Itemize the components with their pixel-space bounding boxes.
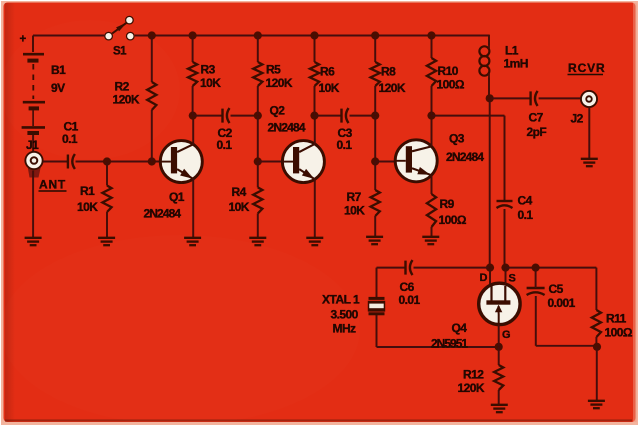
svg-text:2N2484: 2N2484 [144, 207, 182, 221]
svg-text:R8: R8 [381, 65, 396, 79]
wire to Q3 base [375, 161, 395, 163]
wire rail corner to L1 [488, 35, 490, 46]
svg-text:2pF: 2pF [527, 125, 547, 139]
node R2 junction [148, 157, 156, 165]
wire drain column [489, 98, 491, 267]
svg-text:10K: 10K [77, 200, 98, 214]
svg-text:D: D [480, 272, 488, 284]
svg-text:MHz: MHz [333, 322, 357, 336]
svg-text:S: S [509, 273, 516, 285]
svg-text:Q4: Q4 [452, 321, 468, 335]
wire gate to node [498, 324, 500, 346]
svg-text:Q3: Q3 [449, 132, 465, 146]
svg-text:R7: R7 [347, 190, 362, 204]
resistor R2 [113, 36, 157, 162]
svg-text:B1: B1 [51, 63, 66, 77]
capacitor C2 [217, 108, 233, 152]
node Q1 collector [189, 112, 197, 120]
wire J1 to C1 [43, 161, 68, 163]
resistor R6 [310, 36, 340, 116]
wire L1 node to C7 [490, 97, 531, 99]
svg-text:100Ω: 100Ω [605, 326, 633, 340]
wire V+ rail right segment [135, 35, 489, 37]
node R1 junction [103, 157, 111, 165]
node C5 junction [532, 264, 540, 272]
resistor R1 [77, 162, 112, 238]
wire battery to J1 [32, 135, 34, 152]
svg-text:S1: S1 [113, 46, 127, 58]
svg-text:Q1: Q1 [169, 190, 185, 204]
svg-text:ANT: ANT [39, 178, 66, 192]
capacitor C3 [337, 108, 353, 152]
wire to Q2 base [258, 161, 283, 163]
wire C1 to Q1 base [76, 161, 161, 163]
svg-text:0.1: 0.1 [518, 208, 534, 222]
svg-text:0.1: 0.1 [62, 132, 78, 146]
node rail-R3 [189, 31, 197, 39]
capacitor C7 [527, 91, 547, 139]
resistor R9 (Q3 emitter) [427, 176, 467, 237]
svg-text:10K: 10K [319, 81, 340, 95]
jack J2 [571, 90, 599, 126]
node gate / R12 [495, 343, 503, 351]
wire Q3 collector node to C4 column [432, 116, 505, 201]
wire source node to R11 [506, 267, 597, 269]
svg-text:100Ω: 100Ω [439, 213, 467, 227]
node C2 / R5 / Q2 base [254, 112, 262, 120]
svg-text:3.500: 3.500 [331, 308, 359, 322]
svg-text:2N2484: 2N2484 [268, 121, 306, 135]
svg-text:R3: R3 [201, 63, 216, 77]
svg-text:2N5951: 2N5951 [431, 337, 468, 351]
ground (R7) [366, 237, 383, 244]
node rail-R8 [371, 31, 379, 39]
capacitor C5 [527, 268, 576, 310]
wire J1 to ground [32, 171, 34, 238]
wire C6 to drain node [414, 267, 491, 269]
crystal XTAL1 [322, 268, 385, 347]
transistor Q2 [268, 104, 325, 183]
svg-text:C5: C5 [549, 282, 564, 296]
svg-text:1mH: 1mH [504, 57, 528, 71]
ground (J2) [581, 159, 598, 166]
wire R11 to ground [596, 347, 598, 401]
svg-text:+: + [20, 34, 27, 46]
ground (R1) [98, 238, 115, 245]
svg-text:100Ω: 100Ω [437, 78, 465, 92]
wire XTAL bottom to gate [377, 346, 499, 348]
resistor R7 [344, 162, 380, 237]
svg-text:L1: L1 [505, 44, 519, 58]
svg-text:Q2: Q2 [270, 104, 286, 118]
node Q3 collector / R10 / L1 tap [427, 112, 435, 120]
svg-text:0.01: 0.01 [399, 293, 421, 307]
inductor L1 [479, 44, 527, 99]
svg-text:G: G [502, 329, 510, 341]
capacitor C6 [399, 260, 421, 307]
node rail-R6 [310, 31, 318, 39]
resistor R3 [188, 36, 221, 116]
node FET source junction [501, 264, 509, 272]
ground (Q2 emitter) [306, 238, 323, 245]
svg-text:R1: R1 [80, 184, 95, 198]
svg-text:120K: 120K [266, 76, 293, 90]
svg-text:120K: 120K [458, 381, 485, 395]
resistor R11 [592, 268, 633, 347]
svg-text:C4: C4 [518, 194, 533, 208]
ground (R4) [249, 238, 266, 245]
FET Q4 [431, 272, 520, 351]
node rail-R5 [254, 31, 262, 39]
node rail-R2 [148, 31, 156, 39]
wire C2 to Q2 base column [231, 115, 258, 117]
wire C4 to source node [504, 209, 506, 268]
svg-text:R6: R6 [320, 65, 335, 79]
svg-text:0.001: 0.001 [548, 296, 576, 310]
svg-text:C7: C7 [529, 111, 544, 125]
transistor Q3 [395, 132, 484, 182]
svg-text:J2: J2 [571, 112, 584, 126]
svg-text:XTAL 1: XTAL 1 [322, 293, 360, 307]
resistor R8 [371, 36, 406, 116]
ground (R12) [491, 405, 508, 412]
node Q3 base junction [371, 157, 379, 165]
wire Q2 collector [314, 116, 316, 145]
svg-text:R5: R5 [266, 63, 281, 77]
ground (R11) [588, 401, 605, 408]
wire J2 to ground [588, 108, 590, 159]
svg-text:0.1: 0.1 [217, 138, 233, 152]
svg-text:9V: 9V [51, 81, 65, 95]
transistor Q1 [144, 141, 203, 221]
svg-text:2N2484: 2N2484 [446, 150, 484, 164]
wire Q2 collector to C3 [315, 115, 342, 117]
wire Q1 collector [192, 116, 194, 145]
switch S1 [104, 16, 135, 58]
svg-text:R2: R2 [115, 80, 130, 94]
wire Q1 emitter to ground [192, 179, 194, 238]
node Q2 collector [310, 112, 318, 120]
svg-text:R11: R11 [606, 312, 627, 326]
resistor R4 [229, 162, 263, 238]
ground (R9) [422, 237, 439, 244]
svg-text:R9: R9 [440, 197, 455, 211]
label RCVR [568, 61, 606, 75]
svg-text:R4: R4 [232, 185, 247, 199]
resistor R10 [427, 36, 465, 116]
svg-text:R10: R10 [438, 64, 459, 78]
svg-text:C6: C6 [400, 280, 415, 294]
wire drain pin [489, 268, 491, 284]
wire Q2 emitter to ground [314, 179, 316, 238]
ground (Q1 emitter) [184, 238, 201, 245]
svg-text:0.1: 0.1 [337, 138, 353, 152]
wire rail drop to battery [32, 36, 34, 53]
wire Q1 collector to C2 [193, 115, 223, 117]
wire C3 to Q3 base column [350, 115, 376, 117]
svg-text:J1: J1 [26, 138, 39, 152]
wire Q3 base column [374, 116, 376, 162]
svg-text:RCVR: RCVR [568, 61, 606, 75]
wire Q3 collector [431, 116, 433, 146]
svg-text:120K: 120K [113, 93, 140, 107]
wire C7 to J2 [539, 97, 581, 99]
wire C5 bottom [536, 296, 597, 346]
node rail-R10 [427, 31, 435, 39]
capacitor C1 [62, 120, 79, 170]
svg-text:10K: 10K [344, 204, 365, 218]
svg-text:10K: 10K [200, 76, 221, 90]
node C3 / R8 / Q3 base [371, 112, 379, 120]
wire Q2 base column [257, 116, 259, 162]
wire XTAL top row [377, 267, 406, 269]
resistor R5 [253, 36, 293, 116]
capacitor C4 [497, 194, 534, 223]
node R11 bottom / C5 return [593, 343, 601, 351]
wire source pin [505, 268, 507, 284]
node FET drain junction [486, 264, 494, 272]
svg-text:R12: R12 [463, 368, 484, 382]
svg-text:120K: 120K [379, 81, 406, 95]
ground (battery/J1) [25, 238, 42, 245]
node Q2 base junction [254, 157, 262, 165]
jack J1 [24, 138, 43, 178]
battery B1 [20, 34, 67, 134]
label ANT [39, 178, 67, 192]
wire V+ rail left segment [33, 35, 104, 37]
resistor R12 [458, 347, 504, 405]
svg-text:10K: 10K [229, 200, 250, 214]
node L1 / C7 / drain [486, 94, 494, 102]
